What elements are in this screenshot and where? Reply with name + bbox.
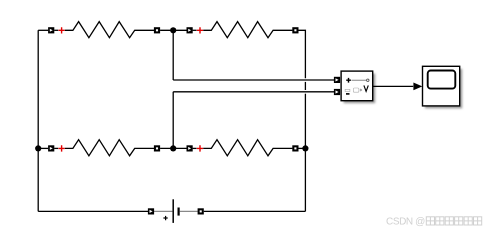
svg-text:CSDN @: CSDN @: [386, 216, 425, 227]
